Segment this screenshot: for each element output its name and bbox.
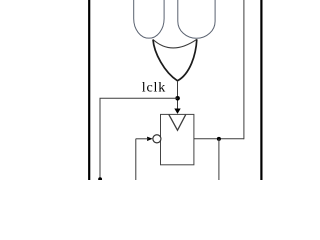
wire from U4 output to right [194,138,244,140]
arrowhead into flip-flop clock [174,109,180,114]
wire left vertical down [99,98,101,179]
wire below bubble input vertical [135,139,137,180]
wire into bubble horizontal [136,138,149,140]
wire down from output junction [218,139,220,180]
junction dot at lclk node [175,96,180,101]
and-gate U1 (left, pointing down) [134,0,164,38]
frame border right [260,0,262,180]
wire lclk horizontal to left [100,97,178,99]
flip-flop U4 box [161,114,194,164]
frame border left [88,0,90,180]
clock triangle inside U4 [169,114,186,130]
and-gate U2 (right, pointing down) [178,0,215,38]
junction dot bottom left [98,177,102,181]
wire from OR output down to clock (node lclk) [177,81,179,109]
inverting bubble on U4 left input [153,135,161,143]
wire feedback riser right [243,0,245,139]
or-gate U3 (pointing down) [153,39,197,48]
junction dot on output wire [217,137,221,141]
arrowhead into bubble [147,137,153,141]
svg-text:lclk: lclk [142,81,166,96]
